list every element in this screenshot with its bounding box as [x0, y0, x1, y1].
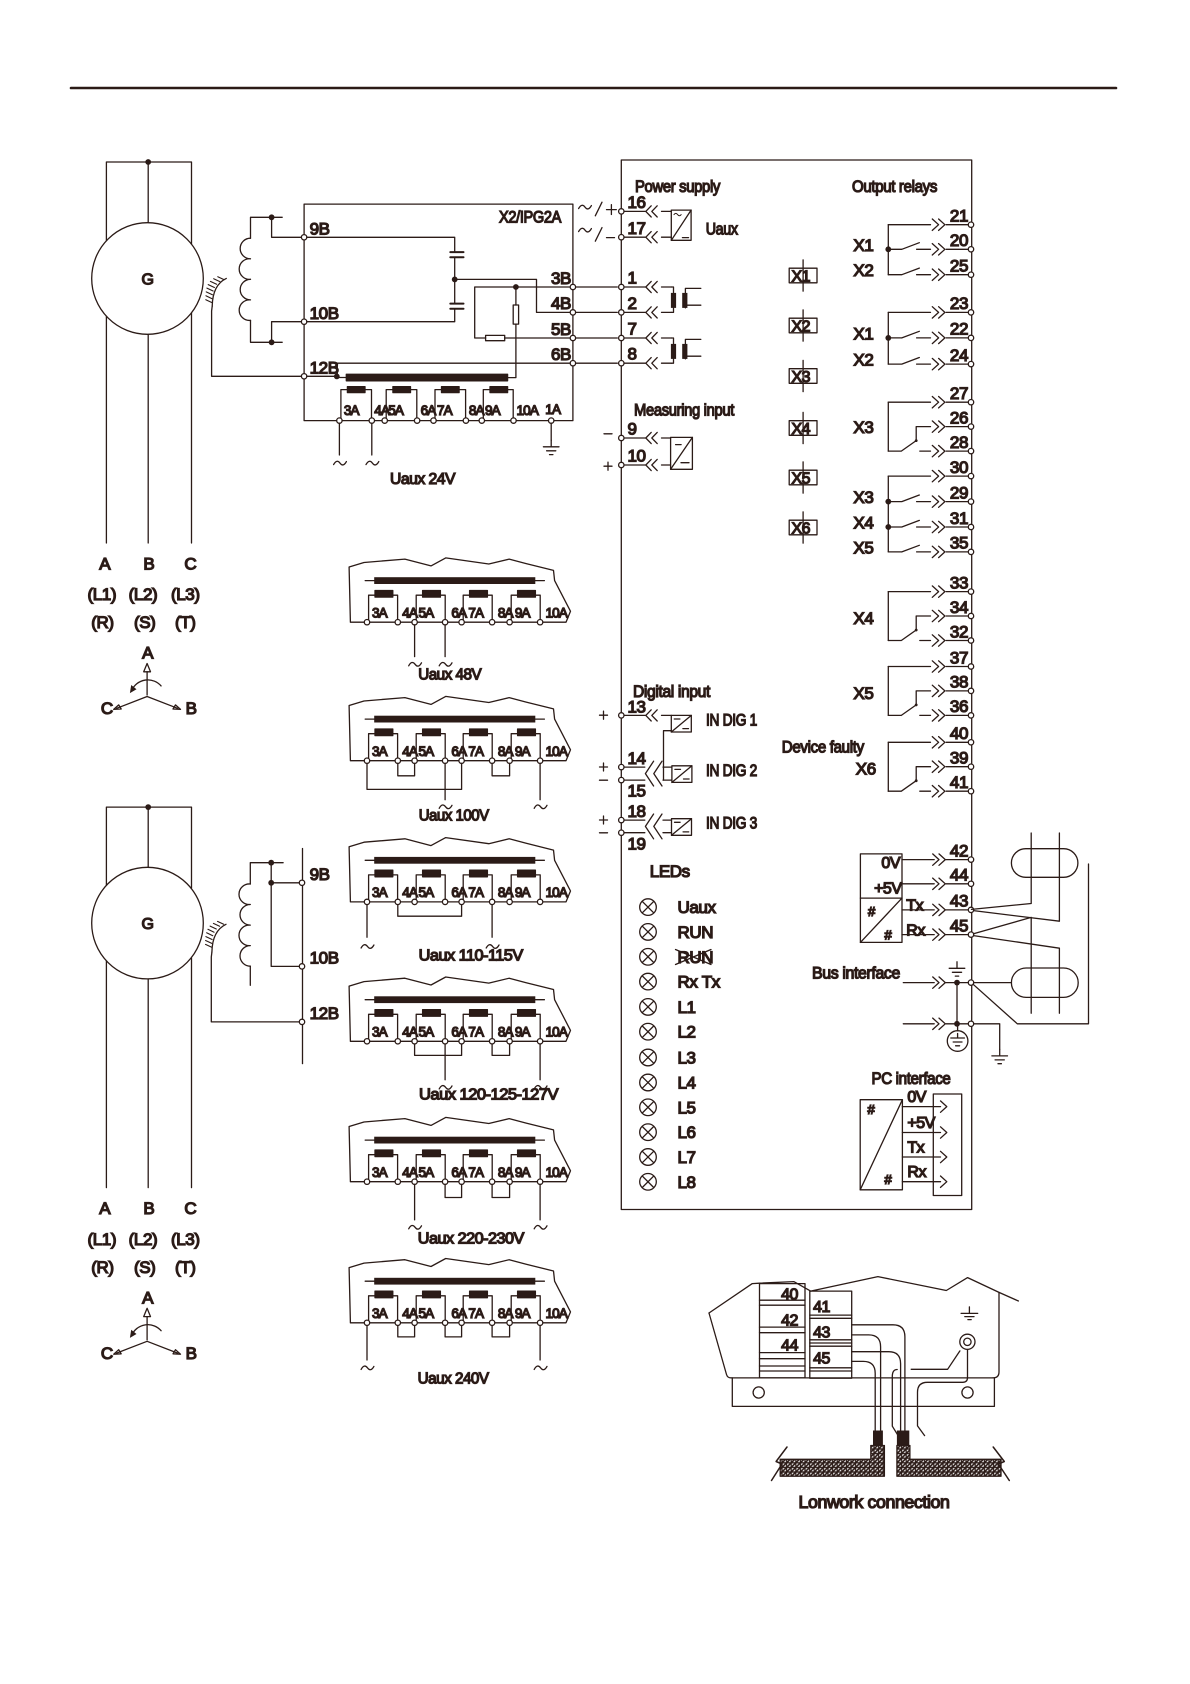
panel left edge [709, 1313, 731, 1378]
transformer tap block Uaux 110-115V [349, 838, 570, 938]
wire R2 to primary bar [508, 324, 516, 378]
fuse X6 [789, 512, 817, 543]
PC driver box [860, 1100, 902, 1190]
wire 12B to node [307, 375, 337, 377]
primary winding bar [365, 580, 544, 582]
svg-text:3B: 3B [551, 269, 571, 288]
bus pair wire B upper [974, 833, 1060, 921]
svg-text:4A: 4A [402, 1025, 418, 1040]
wire node to primary bar left [337, 377, 347, 379]
svg-text:Uaux 48V: Uaux 48V [418, 667, 482, 684]
relay common line pin 21 [888, 207, 973, 231]
tap wire 6A [444, 625, 446, 657]
LED RUN (crossed) [640, 949, 657, 966]
wire pin 7 [624, 337, 672, 339]
isolation transformer T2 [671, 338, 701, 363]
relay contact X4 pin 31 [853, 509, 973, 533]
cable sleeve right (hatched) [897, 1446, 1001, 1477]
terminal 6B [570, 361, 575, 366]
X2 24V terminals 3A-10A [337, 418, 342, 423]
jumper 4A-5A [398, 1326, 415, 1337]
terminal 3B [570, 284, 575, 289]
source marks ~/- [579, 228, 592, 232]
jumper 8A-9A [492, 1044, 510, 1055]
svg-text:7A: 7A [437, 403, 453, 418]
svg-text:(T): (T) [175, 613, 196, 632]
svg-text:9A: 9A [515, 885, 531, 900]
svg-text:34: 34 [950, 598, 968, 617]
tap wire 6A [444, 1044, 446, 1080]
ground at 1A [550, 423, 552, 440]
svg-text:A: A [99, 554, 111, 573]
terminal 12B (G2) [299, 1019, 304, 1024]
svg-text:6A: 6A [451, 885, 467, 900]
terminal column right (41/43/45) [810, 1291, 852, 1378]
svg-text:30: 30 [950, 458, 968, 477]
primary winding bar [365, 859, 544, 861]
IN DIG 1 box [671, 715, 691, 732]
LED L3 [640, 1049, 657, 1066]
svg-text:Tx: Tx [906, 898, 923, 915]
svg-text:45: 45 [950, 916, 968, 935]
wire C2 to 10B row [307, 309, 455, 322]
terminals 3A-10A [364, 1179, 369, 1184]
transformer tap block Uaux 220-230V [349, 1117, 570, 1220]
tap wire 10A [539, 1044, 541, 1080]
svg-text:1A: 1A [545, 402, 561, 417]
node 12B junction [334, 374, 340, 380]
LED L2 [640, 1023, 657, 1040]
svg-text:31: 31 [950, 509, 968, 528]
svg-text:Lonwork connection: Lonwork connection [799, 1492, 950, 1512]
wire pin 2 [624, 311, 672, 313]
terminal 5B [570, 335, 575, 340]
svg-text:X1: X1 [792, 268, 811, 285]
wire 45a [852, 1352, 901, 1431]
phase labels (upper) [87, 554, 199, 632]
svg-text:7A: 7A [468, 744, 484, 759]
wire Rx pin 45 [902, 916, 974, 940]
svg-text:4A: 4A [402, 1165, 418, 1180]
terminal 9B (G2) [299, 880, 304, 885]
svg-text:20: 20 [950, 231, 968, 250]
svg-text:X5: X5 [792, 470, 811, 487]
svg-text:Uaux: Uaux [678, 898, 717, 917]
terminals 3A-10A [364, 899, 369, 904]
fuse X4 [789, 412, 817, 443]
jumper 4A-5A [398, 763, 415, 775]
fuse X2 [789, 310, 817, 341]
IN DIG 3 box [672, 819, 692, 836]
tap wire 10A [539, 1184, 541, 1220]
LED L5 [640, 1099, 657, 1116]
wire 6B row [337, 363, 570, 376]
terminals 3A-10A [364, 620, 369, 625]
svg-text:Measuring input: Measuring input [634, 401, 735, 420]
svg-text:13: 13 [628, 698, 646, 717]
svg-text:Uaux 100V: Uaux 100V [419, 808, 490, 825]
svg-text:12B: 12B [310, 359, 339, 378]
svg-text:8A: 8A [498, 744, 514, 759]
drain wire to screw [892, 1351, 960, 1436]
diagonal bus1 to right drop [973, 864, 1089, 1024]
bus pair wire A upper [972, 833, 1032, 909]
svg-text:+5V: +5V [874, 881, 902, 898]
svg-text:8A: 8A [498, 606, 514, 621]
svg-text:G: G [142, 916, 154, 933]
svg-text:15: 15 [628, 782, 646, 801]
svg-text:A: A [142, 1288, 154, 1307]
svg-text:3A: 3A [372, 744, 388, 759]
secondary windings [369, 729, 398, 760]
transformer tap block Uaux 48V [349, 558, 570, 657]
terminal 1A [549, 418, 554, 423]
generator G1 symbol [92, 223, 204, 335]
relay contact X2 pin 25 [853, 257, 973, 281]
G1 excitation coil L1a [239, 238, 250, 320]
terminal column left (40/42/44) [760, 1284, 806, 1378]
svg-text:A: A [99, 1199, 111, 1218]
svg-text:8A: 8A [498, 885, 514, 900]
transformer primary winding bar [346, 374, 507, 381]
svg-text:5A: 5A [419, 744, 435, 759]
relay common line pin 30 [888, 458, 973, 482]
svg-text:5A: 5A [388, 403, 404, 418]
isolation transformer T1 [671, 287, 701, 312]
tap wire 10A [539, 763, 541, 799]
svg-text:5A: 5A [419, 1025, 435, 1040]
bus pair wire A lower [974, 917, 1032, 1013]
svg-text:7A: 7A [468, 1165, 484, 1180]
svg-text:9B: 9B [310, 865, 330, 884]
bus line 2 [903, 1023, 968, 1025]
generator G2 three-phase wires [106, 807, 191, 1188]
svg-text:L2: L2 [678, 1023, 696, 1042]
terminal 10B (G2) [299, 964, 304, 969]
tap wire 8A [491, 905, 493, 938]
relay contact X2 pin 24 [853, 346, 973, 370]
svg-text:10A: 10A [546, 606, 568, 621]
svg-text:7: 7 [628, 320, 637, 339]
resistor R1 (horizontal) [486, 335, 505, 340]
panel right edge [993, 1292, 999, 1378]
relay changeover X3 pins 27/26/28 [853, 384, 973, 457]
earth symbol above bus line [949, 962, 965, 976]
svg-text:33: 33 [950, 573, 968, 592]
wire R1 to 5B [505, 337, 571, 339]
cable break mark left [772, 1447, 788, 1481]
svg-text:6B: 6B [551, 345, 571, 364]
svg-text:6A: 6A [451, 1165, 467, 1180]
earthing screw [960, 1334, 975, 1349]
relay contact X3 pin 29 [853, 483, 973, 507]
svg-text:(L2): (L2) [129, 585, 158, 604]
svg-text:43: 43 [813, 1324, 830, 1341]
rail hole left [753, 1387, 764, 1398]
terminals 3A-10A [364, 1320, 369, 1325]
svg-text:0V: 0V [907, 1089, 926, 1106]
torn outline [349, 838, 570, 902]
svg-text:X4: X4 [792, 421, 811, 438]
svg-text:5A: 5A [419, 885, 435, 900]
svg-text:4A: 4A [402, 606, 418, 621]
jumper 6A-7A [445, 1326, 462, 1337]
svg-text:3A: 3A [372, 1165, 388, 1180]
svg-text:(T): (T) [175, 1258, 196, 1277]
svg-text:3A: 3A [372, 606, 388, 621]
svg-text:8: 8 [628, 345, 637, 364]
wire 0V pin 42 [902, 841, 974, 865]
transformer tap block Uaux 120-125-127V [349, 977, 570, 1080]
svg-text:L8: L8 [678, 1173, 696, 1192]
node: G2 star point junction [145, 804, 151, 810]
svg-text:B: B [186, 699, 197, 718]
relay group K4 bracket [887, 476, 889, 552]
svg-text:6A: 6A [421, 403, 437, 418]
relay changeover X6 pins 40/39/41 (Device faulty) [856, 724, 974, 797]
LED Uaux [640, 899, 657, 916]
bus terminal 2 [968, 1021, 973, 1026]
wire: G2 coil bottom stub [249, 966, 251, 985]
svg-text:B: B [186, 1344, 197, 1363]
svg-text:7A: 7A [468, 1306, 484, 1321]
svg-text:B: B [143, 1199, 154, 1218]
svg-text:Tx: Tx [907, 1140, 924, 1157]
svg-text:X4: X4 [853, 514, 873, 533]
svg-text:9A: 9A [515, 1025, 531, 1040]
jumper 5A-7A [415, 1044, 462, 1055]
svg-text:9A: 9A [515, 606, 531, 621]
relay group K1 bracket [887, 225, 889, 275]
wire 9 [624, 437, 671, 439]
svg-text:L4: L4 [678, 1074, 696, 1093]
svg-text:28: 28 [950, 433, 968, 452]
svg-text:(S): (S) [134, 1258, 155, 1277]
svg-text:X6: X6 [792, 520, 811, 537]
tap wires Uaux 24V [339, 423, 371, 455]
screw wire to cable [918, 1350, 968, 1436]
wire Tx pin 43 [902, 892, 974, 916]
tap wire 6A [444, 763, 446, 799]
bus pair wire B lower [974, 936, 1060, 1014]
transformer tap block Uaux 100V [349, 696, 570, 799]
svg-text:6A: 6A [451, 1025, 467, 1040]
PC line Tx [902, 1140, 946, 1163]
cable break mark right [993, 1447, 1009, 1481]
svg-text:4A: 4A [402, 1306, 418, 1321]
wire 16 [624, 210, 672, 212]
svg-text:10A: 10A [546, 885, 568, 900]
wires 3B/4B/5B/6B to pins 1/2/7/8 [576, 287, 618, 363]
svg-text:9A: 9A [515, 1306, 531, 1321]
jumper 4A-7A [398, 905, 462, 917]
svg-text:6A: 6A [451, 1306, 467, 1321]
svg-text:5A: 5A [419, 1165, 435, 1180]
primary winding bar [365, 1280, 544, 1282]
svg-text:X4: X4 [853, 609, 873, 628]
wire 17 [624, 236, 672, 238]
svg-text:6A: 6A [451, 606, 467, 621]
svg-text:X3: X3 [853, 488, 873, 507]
svg-text:X1: X1 [853, 324, 873, 343]
svg-text:39: 39 [950, 749, 968, 768]
svg-text:Output relays: Output relays [852, 177, 937, 196]
svg-text:C: C [184, 554, 196, 573]
torn outline [349, 1117, 570, 1181]
svg-text:37: 37 [950, 648, 968, 667]
svg-text:A: A [142, 644, 154, 663]
svg-text:10A: 10A [517, 403, 539, 418]
svg-text:Device faulty: Device faulty [782, 738, 865, 757]
rotation direction symbol (upper) [101, 644, 197, 719]
jumper 3A-7A [367, 763, 462, 789]
svg-text:24: 24 [950, 346, 968, 365]
svg-text:45: 45 [813, 1350, 830, 1367]
svg-text:10: 10 [628, 447, 646, 466]
phase labels (lower) [87, 1199, 199, 1277]
LED Rx Tx [640, 973, 657, 990]
torn outline [349, 1259, 570, 1323]
cable sleeve left (hatched) [780, 1446, 884, 1477]
svg-text:Uaux: Uaux [706, 220, 739, 239]
svg-text:5B: 5B [551, 320, 571, 339]
transformer tap block Uaux 240V [349, 1259, 570, 1361]
svg-text:Uaux 240V: Uaux 240V [418, 1371, 490, 1388]
svg-text:7A: 7A [468, 885, 484, 900]
jumper 8A-9A [492, 1326, 510, 1337]
capacitor C2 [450, 304, 463, 309]
wire: G2 core screen to 12B [211, 952, 299, 1022]
svg-text:8A: 8A [498, 1165, 514, 1180]
mounting rail [732, 1378, 994, 1407]
wire 3B row [475, 287, 571, 338]
svg-text:38: 38 [950, 673, 968, 692]
svg-text:PC interface: PC interface [872, 1069, 951, 1088]
tap wire 5A [414, 1184, 416, 1220]
G2 excitation coil [239, 884, 250, 966]
wire 45b [852, 1361, 876, 1430]
svg-text:32: 32 [950, 622, 968, 641]
svg-text:10B: 10B [310, 304, 339, 323]
svg-text:(L3): (L3) [171, 585, 200, 604]
LED RUN [640, 924, 657, 941]
X2 secondary windings 24V [341, 390, 372, 420]
svg-text:10A: 10A [546, 1025, 568, 1040]
node bus1 [954, 980, 960, 986]
svg-text:B: B [143, 554, 154, 573]
relay contact X1 pin 22 [853, 320, 973, 344]
svg-text:9A: 9A [515, 1165, 531, 1180]
fuse X5 [789, 462, 817, 493]
tap wire 5A [414, 625, 416, 657]
svg-text:2: 2 [628, 294, 637, 313]
bus driver box [860, 854, 902, 943]
svg-text:Rx: Rx [907, 1164, 926, 1181]
svg-text:IN DIG 3: IN DIG 3 [706, 814, 757, 833]
wires 14/15 [624, 767, 672, 780]
svg-text:23: 23 [950, 294, 968, 313]
G2 magnetic core with hatching [212, 924, 226, 952]
panel earth mark [961, 1307, 978, 1320]
svg-text:(L3): (L3) [171, 1230, 200, 1249]
svg-text:X6: X6 [856, 760, 876, 779]
svg-text:9A: 9A [485, 403, 501, 418]
wires 18/19 [624, 820, 672, 833]
LED L7 [640, 1149, 657, 1166]
terminals 3A-10A [364, 1039, 369, 1044]
svg-text:4A: 4A [402, 885, 418, 900]
torn outline [349, 977, 570, 1041]
svg-text:3A: 3A [372, 1025, 388, 1040]
svg-text:X5: X5 [853, 684, 873, 703]
svg-text:Bus interface: Bus interface [812, 964, 900, 983]
svg-text:19: 19 [628, 835, 646, 854]
svg-text:X2: X2 [792, 318, 811, 335]
svg-text:Uaux 110-115V: Uaux 110-115V [419, 947, 524, 964]
svg-text:9B: 9B [310, 220, 330, 239]
LED L1 [640, 999, 657, 1016]
svg-text:3A: 3A [344, 403, 360, 418]
svg-text:29: 29 [950, 483, 968, 502]
svg-text:(R): (R) [91, 1258, 113, 1277]
jumper 6A-7A [445, 1184, 462, 1197]
svg-text:40: 40 [950, 724, 968, 743]
terminals 3A-10A [364, 758, 369, 763]
IN DIG 2 box [672, 766, 692, 783]
svg-text:10A: 10A [546, 1306, 568, 1321]
cable ferrule left [873, 1431, 883, 1446]
svg-text:LEDs: LEDs [650, 862, 690, 881]
svg-text:C: C [184, 1199, 196, 1218]
svg-text:(L1): (L1) [87, 585, 116, 604]
svg-text:X3: X3 [792, 369, 811, 386]
svg-text:44: 44 [781, 1337, 798, 1354]
jumper 8A-9A [492, 1184, 510, 1197]
svg-text:L7: L7 [678, 1148, 696, 1167]
secondary windings [369, 1010, 398, 1041]
svg-text:44: 44 [950, 866, 968, 885]
secondary windings [369, 1291, 398, 1322]
svg-text:(L1): (L1) [87, 1230, 116, 1249]
svg-text:5A: 5A [419, 606, 435, 621]
secondary windings [369, 870, 398, 901]
svg-text:Rx: Rx [906, 922, 925, 939]
terminal 12B [301, 374, 306, 379]
svg-text:X1: X1 [853, 236, 873, 255]
svg-text:L5: L5 [678, 1098, 696, 1117]
PC line 0V [902, 1089, 946, 1112]
PC connector box [933, 1094, 961, 1196]
svg-text:35: 35 [950, 534, 968, 553]
svg-text:18: 18 [628, 802, 646, 821]
svg-text:42: 42 [950, 841, 968, 860]
wire bus2 right to earth [974, 1024, 1000, 1050]
svg-text:10A: 10A [546, 1165, 568, 1180]
panel bottom edge [731, 1377, 993, 1379]
wire 9B row to capacitor [307, 237, 455, 252]
G2 terminal bus line [302, 849, 304, 1064]
generator G2 symbol [92, 867, 204, 979]
svg-text:Power supply: Power supply [635, 177, 721, 196]
terminal 10B [301, 319, 306, 324]
svg-text:8A: 8A [498, 1025, 514, 1040]
top border rule [71, 87, 1116, 90]
relay common line pin 23 [888, 294, 973, 318]
Lonwork panel torn outline [709, 1277, 1018, 1313]
svg-text:Uaux 220-230V: Uaux 220-230V [418, 1231, 525, 1248]
svg-text:C: C [101, 1344, 113, 1363]
wire: coil bottom to 10B [251, 320, 302, 342]
